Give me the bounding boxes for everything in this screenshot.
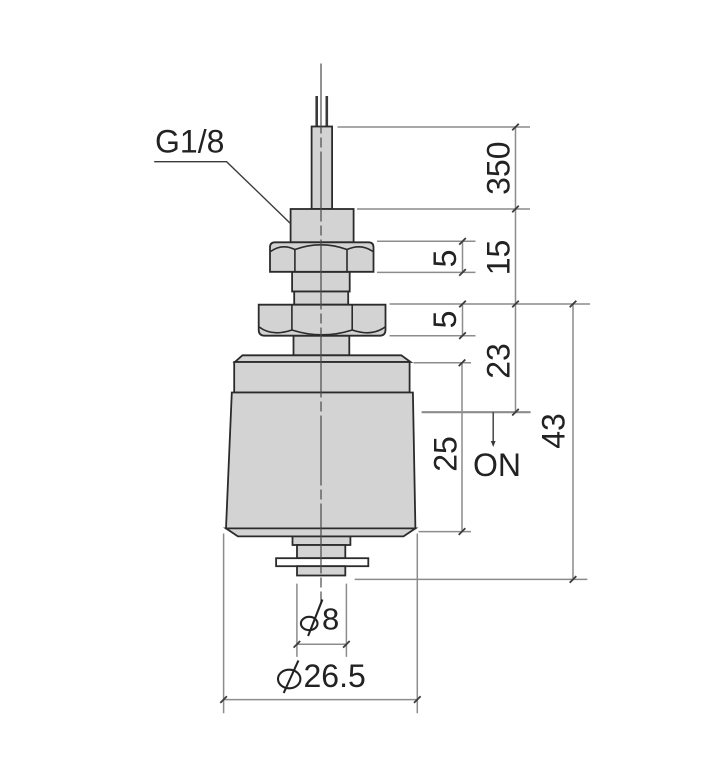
ext line cap top	[414, 362, 472, 364]
svg-text:8: 8	[322, 602, 339, 637]
ext line nut2 top long	[390, 303, 591, 305]
svg-text:G1/8: G1/8	[155, 124, 224, 160]
svg-text:350: 350	[481, 142, 517, 195]
dim line 350-15-23	[515, 127, 517, 412]
stem between nuts upper	[292, 272, 350, 292]
wire leads	[315, 96, 318, 131]
dim line 25	[461, 363, 463, 532]
dim phi8 ext lines	[297, 584, 347, 657]
thread stem G1/8	[291, 209, 354, 242]
dim line 43	[572, 304, 574, 579]
svg-text:25: 25	[428, 436, 464, 472]
stem below nut2	[294, 336, 350, 356]
ext line 350 top	[338, 126, 531, 128]
hex nut N2 body	[259, 305, 386, 336]
hex nut N1 facet lines	[295, 249, 347, 272]
svg-text:43: 43	[536, 413, 572, 449]
dim phi26.5 line	[224, 699, 418, 701]
bottom stub narrow lower	[297, 566, 345, 575]
ext line nut1 bottom	[377, 271, 476, 273]
svg-text:5: 5	[427, 250, 463, 268]
float bottom bevel	[226, 528, 415, 536]
centerline	[320, 64, 322, 605]
leader G1/8	[154, 162, 290, 224]
ext line 43 bottom	[355, 578, 588, 580]
float cap bevel	[235, 355, 411, 362]
ext line body bottom	[419, 531, 472, 533]
cable sleeve	[312, 127, 333, 210]
hex nut N1 body	[270, 242, 374, 271]
svg-text:ON: ON	[473, 447, 521, 483]
hex nut N2 chamfer arcs	[259, 327, 385, 335]
dim line 5 nut1	[462, 241, 464, 272]
bottom stub wide	[293, 536, 351, 545]
ticks	[220, 124, 576, 703]
ON leader arrow	[492, 412, 494, 444]
dim line 5 nut2	[462, 304, 464, 336]
hex nut N1 chamfer arcs	[271, 245, 374, 252]
ext line thread top	[357, 208, 530, 210]
svg-text:5: 5	[427, 311, 463, 329]
svg-text:15: 15	[481, 240, 517, 276]
bottom flange washer	[276, 558, 368, 566]
bottom stub narrow upper	[297, 545, 345, 558]
dim phi8 line	[297, 643, 347, 645]
float cap	[234, 362, 409, 393]
svg-text:26.5: 26.5	[304, 658, 366, 694]
float body	[226, 393, 415, 529]
ext line nut2 bottom	[390, 335, 476, 337]
svg-text:23: 23	[481, 343, 517, 379]
dim text phi26.5 symbol	[278, 661, 300, 694]
hex nut N2 facet lines	[292, 305, 352, 330]
stem between nuts lower	[294, 292, 348, 305]
ON level line	[422, 411, 531, 413]
dim phi26.5 ext lines	[224, 534, 418, 714]
ext line nut1 top	[377, 240, 476, 242]
dim text phi8 symbol	[301, 600, 322, 637]
